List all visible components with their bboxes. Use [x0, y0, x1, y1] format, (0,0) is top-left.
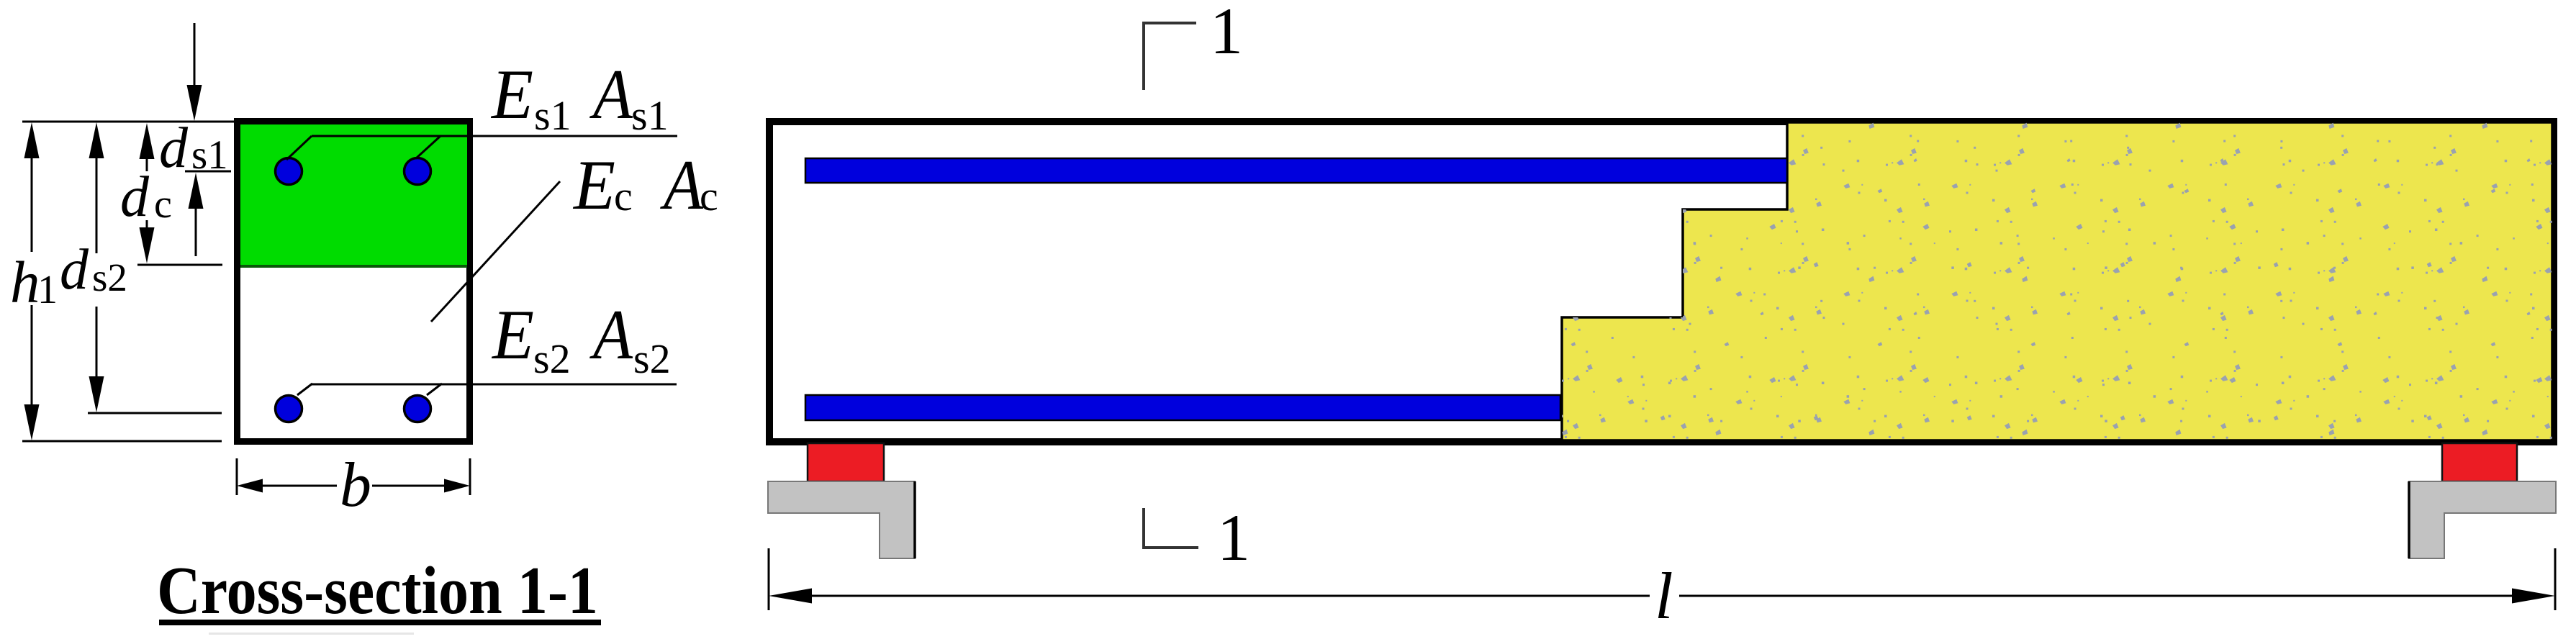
svg-text:b: b	[340, 450, 371, 520]
svg-text:d: d	[120, 166, 150, 229]
tick: carbonation depth	[137, 264, 222, 266]
dimension b	[237, 458, 470, 495]
caption underline	[159, 620, 601, 625]
svg-text:Cross-section 1-1: Cross-section 1-1	[157, 553, 598, 628]
svg-text:s2: s2	[92, 255, 127, 299]
svg-text:1: 1	[37, 268, 58, 312]
tick: bottom rebar axis	[88, 412, 222, 414]
label Es2 As2	[491, 296, 670, 382]
faint artifact line	[209, 633, 414, 635]
extension line: bottom face	[22, 440, 222, 443]
carbonated (green) zone	[240, 124, 467, 265]
label dc	[120, 166, 172, 229]
label Ec Ac	[572, 146, 718, 225]
dimension ds1 upper arrow	[187, 23, 202, 121]
label ds1	[159, 117, 228, 180]
dimension ds2 arrows	[89, 122, 104, 412]
bottom reinforcement bar	[805, 395, 1560, 420]
corroded concrete (yellow) zone	[1562, 122, 2552, 440]
extension line: top face	[22, 121, 234, 123]
dimension dc arrows	[140, 123, 155, 263]
svg-text:c: c	[614, 173, 633, 219]
rebar top-right	[405, 158, 431, 185]
svg-text:1: 1	[1217, 501, 1250, 574]
top reinforcement bar	[805, 158, 1787, 183]
dimension l	[769, 548, 2555, 610]
svg-text:s2: s2	[533, 335, 571, 382]
leader for Es2 As2	[297, 384, 677, 395]
left support pad (red)	[808, 443, 884, 481]
svg-text:h: h	[10, 249, 40, 315]
svg-text:s1: s1	[534, 92, 571, 139]
rebar top-left	[276, 158, 302, 185]
left support angle (gray)	[768, 481, 915, 558]
carbonation boundary line	[240, 265, 467, 268]
rebar bottom-right	[405, 396, 431, 422]
svg-text:A: A	[589, 55, 633, 134]
svg-text:d: d	[60, 238, 89, 302]
dimension ds1 lower arrow	[189, 173, 204, 256]
svg-text:s1: s1	[191, 132, 228, 178]
right support angle left edge	[2408, 481, 2410, 558]
label ds2	[60, 238, 127, 302]
left support angle right edge	[913, 481, 916, 558]
svg-text:l: l	[1655, 559, 1673, 633]
svg-text:c: c	[700, 173, 718, 219]
leader for Ec Ac	[431, 181, 560, 322]
label Es1 As1	[490, 55, 668, 139]
leader for Es1 As1	[286, 136, 677, 160]
dimension h1 arrows	[24, 122, 40, 440]
section mark 1 bottom	[1144, 501, 1250, 574]
tick: top rebar axis	[185, 171, 231, 173]
svg-text:E: E	[572, 146, 615, 225]
label h1	[10, 249, 58, 315]
svg-text:c: c	[154, 182, 172, 227]
svg-text:E: E	[491, 296, 534, 374]
concrete speckle texture	[1562, 122, 2552, 440]
svg-text:s2: s2	[633, 335, 671, 382]
svg-text:A: A	[660, 146, 704, 225]
cross-section outline	[238, 122, 470, 442]
section mark 1 top	[1144, 0, 1243, 90]
right support angle (gray)	[2409, 481, 2556, 558]
svg-text:d: d	[159, 117, 189, 180]
right support pad (red)	[2442, 443, 2517, 481]
beam outline	[769, 122, 2554, 442]
rebar bottom-left	[276, 396, 302, 422]
svg-text:s1: s1	[631, 92, 669, 139]
svg-text:1: 1	[1210, 0, 1243, 68]
svg-text:E: E	[490, 55, 533, 134]
svg-text:A: A	[589, 296, 633, 374]
